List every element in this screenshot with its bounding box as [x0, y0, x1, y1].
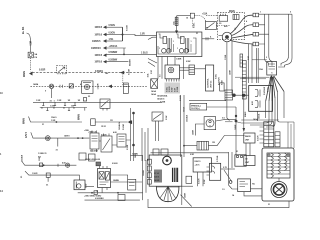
svg-text:15A: 15A	[173, 21, 176, 25]
svg-text:1: 1	[191, 41, 192, 43]
svg-text:GN/BU: GN/BU	[113, 180, 120, 182]
svg-text:0.5GR: 0.5GR	[123, 124, 125, 130]
svg-text:14WA: 14WA	[33, 83, 39, 86]
control unit A1 tall box	[206, 65, 214, 91]
bus2 line	[40, 107, 87, 109]
svg-text:14BR: 14BR	[229, 70, 232, 75]
wire dotted below J2	[191, 18, 193, 28]
cluster dark bars	[173, 168, 178, 182]
inline connector C3	[66, 163, 70, 167]
svg-text:15: 15	[159, 34, 161, 36]
svg-text:0.5GN: 0.5GN	[109, 32, 116, 34]
spark plug wire 2	[232, 25, 254, 36]
wire far right vertical a	[281, 14, 289, 65]
wire trunk x133	[133, 112, 135, 161]
spark fan wire 1	[266, 77, 271, 102]
spark fan wire 3	[271, 78, 273, 102]
connector arrow row2	[108, 85, 112, 89]
wire vertical bus b	[269, 14, 272, 65]
svg-text:MAIN: MAIN	[23, 71, 26, 77]
svg-text:14BR: 14BR	[192, 129, 195, 135]
spark fan wire 5	[273, 77, 277, 93]
wire bus above cluster	[151, 152, 229, 154]
wire label box right	[207, 106, 236, 108]
spark plug wire 3	[232, 34, 253, 38]
svg-text:0.5GR: 0.5GR	[39, 70, 46, 72]
wire sensor to connector	[180, 68, 190, 70]
blower resistor pack R1	[267, 153, 290, 178]
junction circle X	[49, 84, 53, 88]
svg-text:0.5SB: 0.5SB	[160, 102, 166, 104]
svg-text:10F/0.5: 10F/0.5	[95, 26, 103, 29]
coil internal wires	[158, 38, 196, 54]
svg-text:+1BU: +1BU	[84, 130, 89, 132]
wire diagonal feeds	[148, 59, 157, 67]
connector box above bus	[83, 98, 86, 101]
sensor pins	[167, 79, 180, 82]
svg-text:0.5BL: 0.5BL	[166, 86, 168, 92]
svg-text:12V 5: 12V 5	[25, 131, 28, 138]
connector J2	[190, 13, 194, 18]
svg-text:1GA: 1GA	[147, 73, 150, 78]
svg-text:0.5W: 0.5W	[204, 179, 206, 184]
wire resistor right	[208, 136, 244, 146]
wire stub2 link	[259, 25, 269, 44]
svg-text:MAIN: MAIN	[244, 111, 247, 117]
sensor B2	[123, 83, 128, 93]
wire drop to ground 31	[51, 89, 53, 99]
svg-text:1: 1	[159, 48, 160, 50]
relay pins	[100, 166, 108, 169]
distributor cap circle	[222, 32, 232, 42]
wire row B bottom left	[25, 171, 79, 180]
svg-text:14GA/4: 14GA/4	[186, 114, 189, 122]
svg-text:+15/0.5A: +15/0.5A	[109, 45, 118, 48]
inline fuse F2	[91, 119, 96, 126]
svg-text:0.5W: 0.5W	[166, 115, 168, 120]
svg-text:14 BR: 14 BR	[154, 179, 160, 182]
svg-text:1.5GR: 1.5GR	[98, 83, 100, 89]
spark connector stub 2	[253, 23, 259, 27]
relay K4	[101, 136, 112, 152]
wire verticals mid right	[249, 44, 259, 83]
wire cluster links	[99, 140, 131, 145]
switch S8 with pins	[235, 155, 246, 166]
wire distributor drop b	[231, 40, 233, 95]
wire verticals x142-148	[142, 128, 148, 161]
ECU connector hook 1	[255, 89, 258, 97]
wire resistor to motor	[278, 178, 280, 182]
junction arrow	[29, 72, 33, 76]
fuse F4	[28, 52, 33, 58]
bus2 tick 2	[68, 108, 70, 111]
ECU connector hook 2	[255, 100, 258, 108]
wire dotted bus row 2	[30, 85, 148, 87]
pin strip connector b	[242, 61, 246, 100]
svg-text:1.5R: 1.5R	[140, 33, 145, 35]
svg-text:10F/0.5: 10F/0.5	[95, 34, 103, 37]
extra wire labels group	[33, 12, 292, 207]
svg-text:0.5GN: 0.5GN	[169, 86, 171, 92]
svg-text:0.5W: 0.5W	[85, 183, 87, 188]
ground tick 1	[42, 102, 44, 105]
svg-text:MAIN: MAIN	[78, 114, 81, 120]
relay internal marks	[100, 182, 109, 185]
wire sensor left drop	[195, 124, 204, 136]
pin label smudge	[165, 83, 181, 94]
wire dotted right of switch	[216, 25, 230, 27]
relay K7	[238, 179, 251, 192]
svg-text:14GA/14GA: 14GA/14GA	[157, 95, 168, 98]
svg-text:0.5R: 0.5R	[248, 55, 250, 60]
wire coil to distributor	[202, 38, 214, 40]
wire bottom bus 1	[78, 192, 143, 194]
wire row4 drop	[123, 48, 125, 54]
tick marks	[60, 85, 62, 88]
svg-text:1 SL/S: 1 SL/S	[141, 52, 148, 54]
relay coil	[99, 172, 104, 179]
ground tick 2	[54, 102, 56, 105]
bus vertical junction	[122, 27, 124, 41]
svg-text:0.5GR: 0.5GR	[258, 135, 260, 141]
spark connector stub 3	[253, 32, 259, 36]
connector hatch box left	[225, 90, 233, 100]
wire mid-left row A diagonal	[29, 117, 83, 123]
instrument cluster box	[149, 155, 182, 186]
svg-text:1.5R: 1.5R	[36, 100, 41, 102]
wire dash-dot bus row 1	[33, 72, 146, 74]
clock unit	[74, 180, 85, 190]
wire connector to unit	[195, 68, 206, 70]
svg-text:+30 X: +30 X	[195, 165, 201, 167]
spark fan apex	[270, 75, 274, 78]
switch arm diagonal	[224, 170, 232, 182]
wire cluster bottom drop	[181, 186, 183, 205]
wire drop 31b	[47, 177, 49, 182]
svg-text:1GN: 1GN	[39, 156, 41, 161]
svg-text:0.5GN: 0.5GN	[109, 25, 116, 27]
ECU box A2	[249, 86, 273, 112]
svg-text:0.5GR: 0.5GR	[180, 95, 182, 101]
wire clock to relay	[85, 186, 94, 188]
svg-text:0.5GN/BU: 0.5GN/BU	[95, 198, 104, 200]
svg-text:0.5BL: 0.5BL	[194, 22, 196, 28]
wire top-right bus	[259, 13, 292, 15]
ignition coil T1 box	[157, 32, 202, 57]
svg-text:GN/M 0.5GN 4.08: GN/M 0.5GN 4.08	[85, 158, 101, 161]
fuel gauge arc	[156, 186, 179, 202]
svg-text:0.5W: 0.5W	[172, 87, 174, 92]
blower motor M1	[271, 182, 287, 198]
spark connector stub 1	[253, 13, 259, 17]
svg-text:0.5GR: 0.5GR	[199, 178, 201, 184]
svg-text:10/B/0.5: 10/B/0.5	[92, 40, 101, 43]
wire horiz mid right top	[241, 119, 278, 121]
svg-text:0.5GN: 0.5GN	[127, 25, 129, 31]
wire into coil unit top	[252, 59, 267, 61]
wire vertical bus a	[265, 14, 269, 65]
svg-text:0.75SB: 0.75SB	[217, 155, 219, 162]
svg-text:0.5BL: 0.5BL	[216, 73, 218, 79]
svg-text:2.5R: 2.5R	[151, 69, 153, 74]
svg-text:0.5GR/W: 0.5GR/W	[264, 87, 266, 95]
wire trunk pair center	[181, 95, 185, 157]
pin header wire ticks	[260, 127, 264, 143]
distributor dashed enclosure	[217, 13, 244, 40]
svg-text:1: 1	[177, 48, 178, 50]
wire right verticals bottom	[143, 155, 146, 200]
wire distributor drop a	[227, 42, 230, 121]
svg-text:0.5R: 0.5R	[174, 87, 176, 92]
ignition switch S1	[205, 21, 216, 29]
wire vertical feed	[29, 39, 31, 53]
svg-text:14GA: 14GA	[258, 113, 261, 119]
cluster left pin boxes	[147, 159, 151, 164]
fuse F8 on vertical	[175, 17, 178, 25]
svg-text:IGN 15: IGN 15	[195, 161, 202, 163]
radio unit box 1	[244, 133, 255, 143]
svg-text:10F/0.5: 10F/0.5	[95, 61, 103, 64]
cluster top circle	[163, 156, 172, 165]
svg-text:10/BF/0.5: 10/BF/0.5	[91, 47, 102, 50]
svg-text:1.5G: 1.5G	[109, 39, 114, 41]
svg-text:14GA/8: 14GA/8	[21, 154, 24, 162]
wire to ECU box	[234, 94, 249, 96]
svg-text:1.5GR: 1.5GR	[32, 173, 38, 175]
relay K3	[90, 133, 99, 149]
relay K21 dashed box	[57, 66, 67, 74]
resistor R2 hatched	[197, 141, 208, 150]
svg-text:+15A: +15A	[202, 13, 208, 16]
wire dotted to switch	[194, 16, 205, 22]
wire between radio boxes	[246, 143, 250, 156]
bus junction box	[94, 191, 97, 195]
sensor B6 circle	[204, 117, 216, 130]
spark plug wire 4	[231, 41, 254, 45]
connector box left pins	[209, 163, 220, 180]
svg-text:15: 15	[177, 34, 179, 36]
cluster inner blob	[154, 170, 162, 183]
svg-text:1.5R: 1.5R	[57, 100, 62, 102]
wire row A continue	[95, 121, 127, 123]
svg-text:GN/BU: GN/BU	[143, 169, 145, 176]
svg-text:CLOCK(+): CLOCK(+)	[191, 108, 200, 110]
bus2 tick 1	[46, 108, 48, 111]
connector inside distributor	[219, 16, 228, 22]
svg-text:1.5SB 31: 1.5SB 31	[38, 153, 47, 155]
svg-text:+1BU GN/BU 0.5BU: +1BU GN/BU 0.5BU	[84, 195, 102, 197]
wire y155 link	[131, 155, 143, 157]
connector arrow row A	[128, 120, 133, 124]
resistor R3	[117, 134, 126, 147]
svg-text:15A 9: 15A 9	[51, 116, 57, 119]
svg-text:0.5SB/W: 0.5SB/W	[109, 52, 119, 54]
small box K6	[186, 176, 192, 183]
svg-text:1.5R: 1.5R	[51, 120, 56, 122]
wire row A bottom left	[22, 162, 76, 166]
connector X1 box	[151, 79, 158, 89]
svg-text:15A: 15A	[259, 68, 263, 71]
svg-text:0.5W: 0.5W	[268, 87, 270, 92]
wire MAIN drop with arrow	[243, 95, 245, 131]
pin header strip	[264, 122, 274, 147]
wire dotted down from fuse	[30, 58, 32, 71]
svg-text:MAIN: MAIN	[229, 10, 235, 13]
switch S7	[152, 112, 163, 121]
coil primary right	[178, 35, 182, 38]
spark fan wire 2	[269, 77, 271, 101]
switch S5 on bus	[100, 99, 110, 108]
spark connector stub 4	[253, 42, 259, 46]
relay contact	[105, 172, 109, 180]
spark fan wire 4	[273, 77, 275, 98]
wire far right vertical b	[278, 14, 292, 67]
connector hatch right of sensor	[189, 65, 195, 75]
svg-text:RADIO: RADIO	[245, 135, 251, 138]
bus2 tick 3	[84, 108, 86, 111]
wire x236 vertical	[235, 107, 237, 155]
svg-text:0.5SB/W: 0.5SB/W	[109, 60, 119, 62]
wire relay to blower	[244, 189, 262, 196]
svg-text:0.5GR: 0.5GR	[129, 69, 131, 75]
junction dots bottom bus	[91, 192, 93, 194]
svg-text:MAIN: MAIN	[23, 118, 26, 124]
svg-text:1.5BR: 1.5BR	[176, 59, 182, 61]
ground tick 4	[74, 102, 76, 105]
svg-text:CONTROL: CONTROL	[207, 77, 209, 88]
svg-text:0.5SB: 0.5SB	[177, 86, 179, 92]
wire sensor up-right	[216, 120, 236, 121]
ground tick 3	[64, 102, 66, 105]
relay box right of cluster	[193, 158, 211, 172]
wire to switch	[221, 168, 235, 170]
wire bottom bus 2	[85, 199, 140, 201]
coil primary left	[160, 35, 164, 38]
connector boxes above gauge	[153, 149, 159, 155]
wire bus to coil box	[123, 35, 157, 36]
svg-text:14GA 31: 14GA 31	[157, 98, 165, 101]
radio unit box 2	[244, 156, 255, 166]
wire right ladder verticals	[265, 101, 267, 118]
wires relay right	[111, 175, 143, 182]
wire trunk x130	[130, 108, 132, 161]
ground bus G31	[33, 101, 162, 103]
blower unit box	[262, 148, 294, 201]
svg-text:0.5W: 0.5W	[186, 61, 191, 63]
svg-text:0.5R: 0.5R	[190, 154, 195, 156]
connector narrow box	[220, 83, 224, 91]
svg-text:0.5GR/1: 0.5GR/1	[95, 71, 104, 73]
wire bottom row center	[189, 100, 226, 102]
wire left bend	[225, 122, 241, 123]
wire from B+ arc	[27, 33, 31, 39]
wire trunk 14BR right	[229, 152, 238, 189]
inline switch S9	[69, 84, 73, 88]
svg-text:0.5R: 0.5R	[31, 41, 33, 46]
connector narrow box right	[275, 132, 280, 147]
svg-text:1.5SB: 1.5SB	[225, 54, 227, 60]
connector arrow row1-right	[120, 71, 124, 75]
svg-text:0.5SB: 0.5SB	[127, 144, 129, 150]
wire drop 31	[57, 138, 59, 146]
inline connector C1	[45, 136, 50, 141]
wire relay drops	[197, 172, 203, 186]
ignition coil unit box right	[267, 62, 277, 76]
connector dark box	[96, 162, 101, 166]
wire trunk to resistor	[184, 145, 197, 147]
wire bottom long	[148, 199, 289, 208]
wire coil box drops	[158, 57, 184, 80]
junction arrow at coil box top	[175, 31, 178, 34]
connector boxes below	[79, 153, 86, 160]
label box SPEEDOMETER	[190, 103, 207, 110]
spark fan wire 6	[274, 76, 284, 92]
svg-text:14GA: 14GA	[151, 90, 157, 93]
wire top feed line	[177, 15, 191, 17]
svg-text:14BR: 14BR	[234, 124, 237, 130]
spark plug wire 1	[231, 15, 254, 33]
wire dotted vertical link	[122, 75, 124, 87]
svg-text:14GA/14: 14GA/14	[118, 121, 121, 130]
svg-text:10F/0.5: 10F/0.5	[95, 54, 103, 57]
svg-text:14GA: 14GA	[253, 118, 259, 121]
svg-text:14GA: 14GA	[151, 93, 157, 96]
wire ECU drop	[257, 111, 259, 121]
wire diagonal jog upper	[148, 37, 157, 39]
svg-text:31 0.5SB: 31 0.5SB	[90, 151, 98, 153]
wire far right verticals low	[288, 122, 294, 148]
svg-text:1BU: 1BU	[135, 154, 137, 158]
pin strip connector a	[240, 54, 243, 67]
connector 2 inside distributor	[233, 15, 239, 20]
svg-text:14BR: 14BR	[184, 192, 187, 198]
svg-text:0.5GN: 0.5GN	[112, 163, 118, 165]
wire switch drops	[156, 121, 159, 141]
svg-text:14GA: 14GA	[183, 106, 186, 112]
inline sensor box	[46, 173, 50, 177]
wire mid-left row B diagonal	[31, 132, 90, 138]
main relay K1	[98, 169, 111, 188]
svg-text:1W: 1W	[212, 142, 215, 144]
svg-text:B+ 6/1: B+ 6/1	[21, 26, 25, 34]
hall sensor U2	[165, 65, 180, 79]
diode box	[128, 179, 136, 190]
small box below bus	[118, 195, 125, 201]
svg-text:1: 1	[173, 41, 174, 43]
wire horizontals into coil unit	[235, 77, 270, 79]
fuel pump G6	[82, 81, 93, 94]
wire vertical to coil	[176, 16, 178, 32]
svg-text:BO/BR: BO/BR	[130, 59, 132, 66]
svg-text:UNIT 25: UNIT 25	[211, 80, 213, 88]
